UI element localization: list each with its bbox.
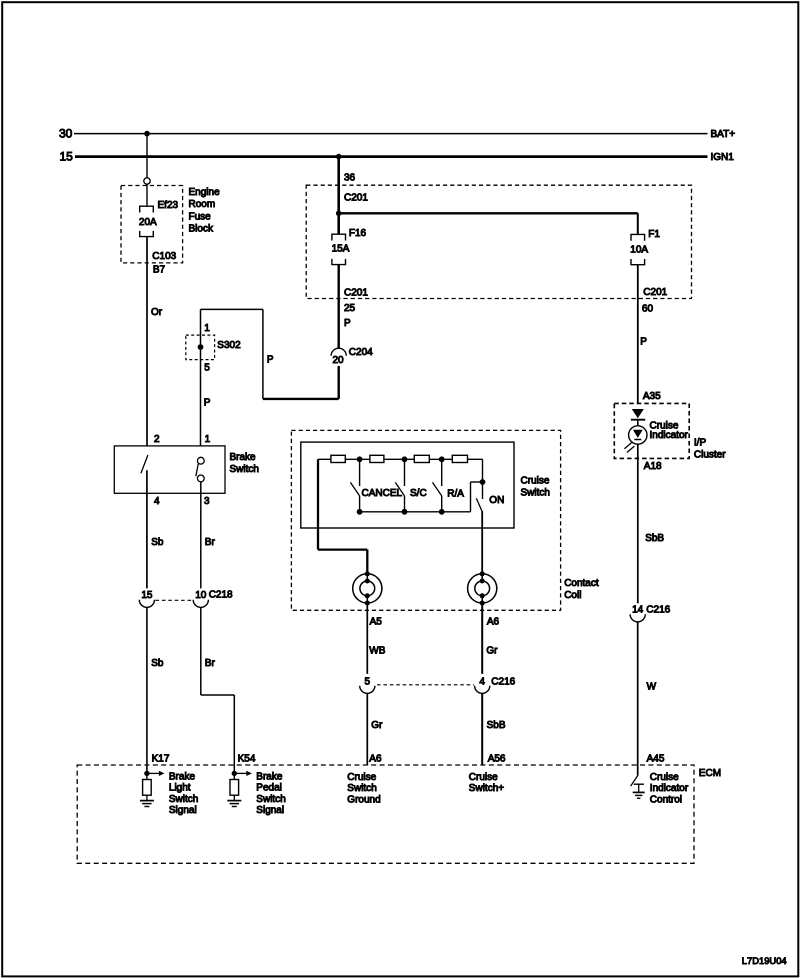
svg-text:C201: C201 xyxy=(344,193,368,204)
svg-text:R/A: R/A xyxy=(447,489,464,500)
svg-text:Switch: Switch xyxy=(256,794,285,805)
svg-text:A56: A56 xyxy=(488,754,506,765)
svg-text:P: P xyxy=(267,355,274,366)
svg-text:1: 1 xyxy=(204,323,210,334)
svg-text:Ef23: Ef23 xyxy=(158,200,179,211)
svg-text:Signal: Signal xyxy=(169,805,197,816)
svg-text:A5: A5 xyxy=(370,616,383,627)
svg-text:Contact: Contact xyxy=(564,578,599,589)
svg-text:A6: A6 xyxy=(369,754,382,765)
svg-text:Cruise: Cruise xyxy=(347,772,376,783)
svg-text:K17: K17 xyxy=(152,754,170,765)
svg-text:Brake: Brake xyxy=(256,771,283,782)
svg-text:Switch: Switch xyxy=(347,783,376,794)
svg-text:3: 3 xyxy=(204,496,210,507)
svg-text:Fuse: Fuse xyxy=(189,211,212,222)
svg-text:W: W xyxy=(647,681,657,692)
svg-text:ON: ON xyxy=(489,495,504,506)
svg-text:10A: 10A xyxy=(630,244,648,255)
svg-text:K54: K54 xyxy=(238,754,256,765)
svg-text:ECM: ECM xyxy=(699,768,721,779)
svg-text:Signal: Signal xyxy=(256,805,284,816)
svg-text:Brake: Brake xyxy=(169,771,196,782)
svg-text:Indicator: Indicator xyxy=(650,430,689,441)
svg-text:C204: C204 xyxy=(349,347,373,358)
svg-text:10: 10 xyxy=(195,590,207,601)
svg-text:P: P xyxy=(204,397,211,408)
svg-text:60: 60 xyxy=(642,304,654,315)
svg-text:Gr: Gr xyxy=(486,645,498,656)
svg-text:Or: Or xyxy=(151,307,163,318)
svg-text:20: 20 xyxy=(332,355,344,366)
svg-text:Switch: Switch xyxy=(230,464,259,475)
svg-text:30: 30 xyxy=(59,127,73,141)
svg-text:CANCEL: CANCEL xyxy=(362,488,403,499)
svg-text:L7D19U04: L7D19U04 xyxy=(742,955,787,966)
svg-text:P: P xyxy=(640,337,647,348)
svg-text:Pedal: Pedal xyxy=(256,783,282,794)
svg-text:A45: A45 xyxy=(647,754,665,765)
svg-text:4: 4 xyxy=(154,496,160,507)
svg-text:15: 15 xyxy=(141,590,153,601)
svg-text:15A: 15A xyxy=(332,244,350,255)
svg-text:F1: F1 xyxy=(648,229,660,240)
svg-text:C103: C103 xyxy=(152,251,176,262)
svg-text:Cruise: Cruise xyxy=(521,475,550,486)
svg-text:S302: S302 xyxy=(217,340,241,351)
svg-text:A18: A18 xyxy=(644,461,662,472)
svg-text:C201: C201 xyxy=(643,287,667,298)
svg-text:5: 5 xyxy=(365,677,371,688)
svg-text:Light: Light xyxy=(169,783,191,794)
svg-text:Ground: Ground xyxy=(347,794,380,805)
svg-text:4: 4 xyxy=(479,677,485,688)
svg-text:Brake: Brake xyxy=(230,452,257,463)
svg-text:Control: Control xyxy=(650,794,682,805)
svg-text:Sb: Sb xyxy=(151,537,164,548)
svg-text:Sb: Sb xyxy=(151,658,164,669)
svg-text:B7: B7 xyxy=(153,265,166,276)
svg-text:Cruise: Cruise xyxy=(469,772,498,783)
svg-text:Switch: Switch xyxy=(521,488,550,499)
svg-text:Switch+: Switch+ xyxy=(469,783,504,794)
svg-text:1: 1 xyxy=(205,434,211,445)
svg-text:Cluster: Cluster xyxy=(694,449,726,460)
svg-text:BAT+: BAT+ xyxy=(711,129,736,140)
svg-text:C216: C216 xyxy=(491,676,515,687)
svg-text:A6: A6 xyxy=(487,616,500,627)
svg-text:IGN1: IGN1 xyxy=(711,152,735,163)
svg-text:WB: WB xyxy=(369,645,385,656)
svg-text:Switch: Switch xyxy=(169,794,198,805)
svg-text:Block: Block xyxy=(189,224,214,235)
svg-text:P: P xyxy=(344,318,351,329)
svg-text:A35: A35 xyxy=(643,391,661,402)
svg-text:F16: F16 xyxy=(349,228,367,239)
svg-text:Gr: Gr xyxy=(371,720,383,731)
svg-text:2: 2 xyxy=(154,434,160,445)
svg-text:SbB: SbB xyxy=(645,533,664,544)
svg-text:Cruise: Cruise xyxy=(650,772,679,783)
svg-text:36: 36 xyxy=(344,172,356,183)
svg-text:Br: Br xyxy=(205,658,216,669)
svg-text:I/P: I/P xyxy=(694,437,707,448)
svg-text:C218: C218 xyxy=(209,590,233,601)
svg-text:Br: Br xyxy=(205,537,216,548)
svg-text:Engine: Engine xyxy=(189,187,221,198)
svg-text:Room: Room xyxy=(189,199,216,210)
svg-text:S/C: S/C xyxy=(410,488,427,499)
svg-text:25: 25 xyxy=(344,303,356,314)
svg-text:20A: 20A xyxy=(139,217,157,228)
svg-text:SbB: SbB xyxy=(487,720,506,731)
svg-text:14: 14 xyxy=(632,605,644,616)
svg-text:Coil: Coil xyxy=(564,590,581,601)
svg-text:5: 5 xyxy=(204,363,210,374)
svg-text:C201: C201 xyxy=(344,288,368,299)
svg-text:15: 15 xyxy=(60,150,74,164)
svg-text:C216: C216 xyxy=(646,604,670,615)
svg-text:Indicator: Indicator xyxy=(650,783,689,794)
